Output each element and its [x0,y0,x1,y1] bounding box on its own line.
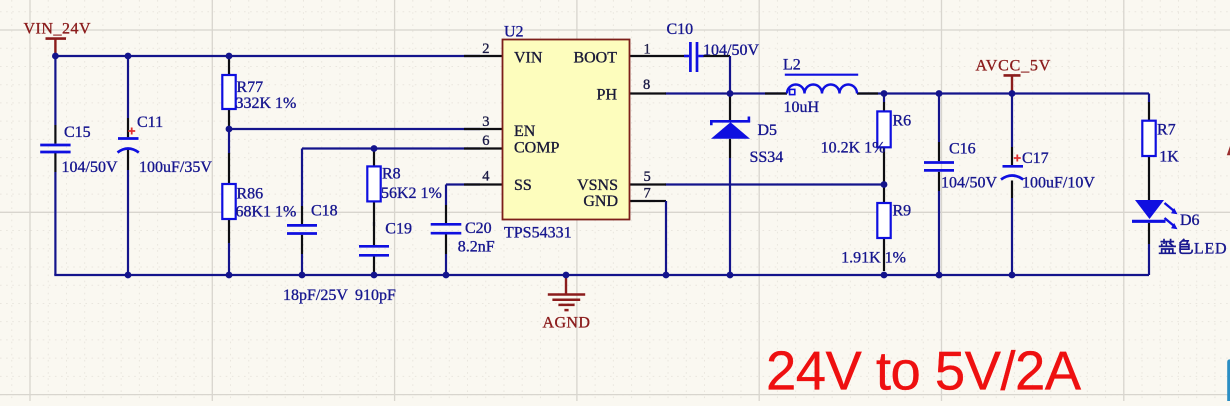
svg-text:TPS54331: TPS54331 [504,225,572,242]
svg-text:10uH: 10uH [784,99,820,116]
svg-text:18pF/25V: 18pF/25V [283,287,348,304]
svg-text:8: 8 [643,77,650,93]
svg-text:104/50V: 104/50V [62,159,118,176]
svg-text:68K1 1%: 68K1 1% [236,204,297,221]
svg-text:56K2 1%: 56K2 1% [381,185,442,202]
svg-text:C10: C10 [667,21,694,38]
svg-text:C16: C16 [949,141,976,158]
svg-text:R7: R7 [1157,122,1176,139]
svg-text:AVCC_5V: AVCC_5V [976,58,1052,75]
svg-text:GND: GND [583,193,618,210]
svg-text:R8: R8 [382,165,401,182]
svg-text:1K: 1K [1159,149,1179,166]
svg-text:COMP: COMP [514,140,559,157]
svg-text:100uF/35V: 100uF/35V [139,159,212,176]
svg-text:910pF: 910pF [355,287,396,304]
svg-text:L2: L2 [783,57,801,74]
svg-text:3: 3 [482,114,489,130]
svg-text:U2: U2 [504,24,524,41]
svg-text:C11: C11 [137,114,163,131]
svg-text:8.2nF: 8.2nF [458,239,495,256]
svg-text:VSNS: VSNS [577,177,618,194]
svg-text:R6: R6 [893,112,912,129]
svg-text:5: 5 [644,169,651,185]
svg-text:C20: C20 [465,220,492,237]
svg-text:R9: R9 [893,203,912,220]
svg-text:24V to 5V/2A: 24V to 5V/2A [766,341,1082,402]
svg-text:10.2K 1%: 10.2K 1% [821,140,886,157]
svg-text:VIN: VIN [514,50,543,67]
svg-text:C17: C17 [1022,150,1049,167]
svg-text:D5: D5 [758,122,778,139]
svg-text:104/50V: 104/50V [703,42,759,59]
svg-text:D6: D6 [1180,212,1200,229]
svg-text:LED: LED [1194,241,1227,258]
svg-text:100uF/10V: 100uF/10V [1022,175,1095,192]
svg-text:1.91K 1%: 1.91K 1% [841,250,906,267]
svg-text:SS: SS [514,177,532,194]
svg-text:R86: R86 [237,186,264,203]
svg-text:1: 1 [644,42,651,58]
svg-text:104/50V: 104/50V [941,175,997,192]
svg-text:2: 2 [482,41,489,57]
svg-text:EN: EN [514,123,536,140]
svg-text:4: 4 [482,168,490,184]
svg-text:VIN_24V: VIN_24V [24,21,92,38]
svg-text:C18: C18 [311,203,338,220]
svg-text:332K 1%: 332K 1% [236,95,297,112]
svg-text:BOOT: BOOT [573,50,617,67]
svg-text:7: 7 [644,186,651,202]
svg-text:SS34: SS34 [750,149,784,166]
svg-text:AGND: AGND [543,315,591,332]
svg-text:PH: PH [597,87,618,104]
svg-text:R77: R77 [237,79,264,96]
svg-text:6: 6 [482,133,489,149]
svg-text:C15: C15 [64,124,91,141]
svg-text:C19: C19 [385,220,412,237]
